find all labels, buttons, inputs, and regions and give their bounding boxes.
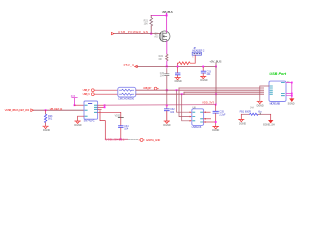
port P5V arrow [135, 65, 138, 67]
wire C6 top [215, 105, 217, 111]
wire port to U2 pin [75, 104, 85, 106]
transistor Q1 source stub [163, 40, 167, 41]
capacitor C4 [201, 71, 205, 73]
svg-text:VB_DET_R: VB_DET_R [50, 107, 63, 111]
wire drain vertical [166, 15, 168, 32]
IC U3 right pin arrows [204, 111, 206, 122]
wire decoupling branch vertical [166, 90, 168, 108]
wire FB1 right [258, 113, 271, 115]
wire cap C1 bottom to bus [166, 76, 168, 90]
svg-text:104: 104 [160, 75, 165, 78]
wire FB1 left [241, 113, 249, 115]
svg-text:DGND: DGND [163, 124, 170, 127]
IC U2 internal text [88, 102, 91, 104]
filter FL1 coil bottom [119, 93, 133, 95]
node junction ESD drop 1 [176, 89, 178, 91]
svg-text:+5V_BUS: +5V_BUS [209, 59, 221, 63]
capacitor C3 [175, 73, 180, 75]
svg-text:2.2uF: 2.2uF [219, 113, 226, 116]
capacitor C6 [213, 111, 218, 113]
connector J1 body [269, 81, 286, 101]
svg-text:P5V_U: P5V_U [124, 63, 135, 67]
pin tick FB1 [259, 113, 261, 114]
capacitor C2 [164, 109, 169, 111]
filter FL1 body [118, 87, 136, 97]
svg-text:3V3: 3V3 [71, 95, 76, 98]
svg-text:DGND: DGND [257, 104, 264, 107]
node junction shield low [291, 95, 293, 97]
ground arrow under C4 [201, 76, 206, 78]
resistor R1 [150, 18, 153, 26]
ferrite bead FB1 [250, 113, 259, 115]
svg-text:USB_DP: USB_DP [143, 86, 152, 90]
svg-text:USB_VBUS: USB_VBUS [162, 10, 173, 14]
wire mid rail long [105, 104, 216, 107]
power bar symbol at C5 [118, 116, 123, 118]
svg-text:0R: 0R [159, 58, 162, 61]
svg-text:DGND: DGND [200, 79, 207, 82]
wire FB1 right leg [270, 114, 272, 120]
node junction tall vertical on GND bus line [215, 93, 217, 95]
wire bus line A VBUS [179, 87, 264, 89]
node junction tie bottom [104, 106, 106, 108]
wire bottom rail [105, 138, 127, 140]
wire bus line B D+ [136, 89, 264, 91]
svg-text:EGND_SH: EGND_SH [263, 123, 275, 126]
connector J1 pin names [270, 86, 272, 94]
svg-text:AO: AO [154, 35, 158, 38]
capacitor C5 [119, 126, 124, 128]
svg-text:MICROUSB: MICROUSB [270, 102, 281, 105]
ground arrow under C2 [164, 121, 170, 123]
wire R1 bottom to gate line [150, 26, 152, 34]
node junction R3/5V rail [177, 66, 179, 68]
transistor Q1 gate bar [160, 33, 162, 40]
node junction port stem [74, 104, 76, 106]
wire FB1 left leg [240, 114, 242, 119]
wire U2 spare vertical [100, 111, 105, 140]
wire ESD drop 3 [182, 94, 190, 121]
node junction bottom rail [120, 138, 122, 140]
connector JP1 body [192, 52, 201, 55]
wire U2 right pin 2 [98, 106, 105, 108]
svg-text:USBLC6: USBLC6 [192, 126, 202, 129]
svg-text:DGND: DGND [175, 80, 182, 83]
wire J1 shield pins to vertical [286, 83, 292, 96]
svg-text:DGND: DGND [74, 124, 81, 127]
power arrow shield filled [289, 98, 294, 102]
svg-text:10K: 10K [144, 22, 149, 25]
wire R1 top stub [150, 15, 152, 17]
wire C5 top [120, 117, 122, 125]
svg-text:VDD_3V3: VDD_3V3 [202, 101, 214, 105]
wire 5V horizontal rail [137, 66, 216, 68]
svg-text:104: 104 [124, 128, 129, 131]
wire tall vertical from rail to mid rail [215, 67, 217, 105]
node junction C4 branch [202, 66, 204, 68]
wire C4 bottom [202, 73, 204, 76]
node junction mid rail end [215, 104, 217, 106]
resistor R3 [178, 62, 195, 65]
wire R3 left leg down [177, 63, 179, 66]
svg-text:USB_POWER_EN: USB_POWER_EN [118, 30, 148, 34]
svg-text:5K1: 5K1 [48, 118, 53, 121]
power arrow FB1 right filled [268, 120, 273, 123]
svg-text:104: 104 [170, 111, 175, 114]
svg-text:FB1 600R: FB1 600R [240, 110, 251, 113]
transistor Q1 channel bar [162, 33, 164, 41]
svg-text:USB Port: USB Port [269, 72, 286, 76]
node junction ESD drop 3 [181, 93, 183, 95]
wire C2 bottom [166, 111, 168, 121]
wire ESD drop 2 [179, 88, 190, 117]
IC U2 pin names right [94, 105, 96, 112]
wire cap C1 top stub [166, 69, 168, 74]
transistor Q1 bulk arrow [163, 36, 167, 38]
IC U2 pin names left [85, 105, 87, 116]
wire C4 top stub [202, 67, 204, 70]
power port 3V3 symbol [72, 98, 77, 106]
wire bus line C ID [184, 91, 264, 93]
wire bus line C corner [183, 92, 185, 94]
capacitor C1 inline [165, 74, 169, 76]
wire U2 right pin 3 stub [98, 108, 102, 110]
svg-text:USB_SHELL: USB_SHELL [105, 137, 125, 141]
port USB_PWR_EN arrow [111, 32, 114, 34]
svg-text:104: 104 [206, 73, 211, 76]
node junction shield top [291, 82, 293, 84]
ground arrow FB1 left [239, 119, 244, 121]
svg-text:SN74LVC: SN74LVC [84, 120, 95, 123]
transistor Q1 body circle [159, 31, 170, 42]
wire ESD drop 1 [177, 90, 190, 112]
port circle USB_DP [154, 87, 157, 90]
transistor Q1 drain stub [163, 32, 167, 33]
node junction on VBUS bus line [166, 89, 168, 91]
node junction R1/gate [150, 33, 152, 35]
wire U2 pin 4 to C5 [98, 112, 121, 117]
node junction rail corner [215, 66, 217, 68]
svg-text:DGND: DGND [239, 122, 246, 125]
wire U3 right pin 2 stub [204, 118, 211, 120]
IC U2 body [84, 101, 98, 119]
wire label tick [215, 63, 217, 67]
ground arrow J1 [257, 101, 263, 103]
connector JP1 pin stub [194, 55, 196, 63]
port VUSB arrow [31, 109, 34, 112]
ground arrow under U2 [75, 121, 81, 123]
wire VBUS tick [166, 13, 168, 15]
wire bus line D D- [136, 93, 264, 95]
wire U2 bottom-left pin to ground [78, 116, 84, 121]
wire bottom dashed stub [128, 138, 138, 140]
node junction R4 [45, 109, 47, 111]
svg-text:CMCHOKE90: CMCHOKE90 [118, 97, 135, 100]
wire C5 bottom [120, 128, 122, 139]
connector JP1 pins [194, 53, 200, 55]
svg-text:USB_N: USB_N [83, 92, 90, 96]
svg-text:J4A: J4A [250, 106, 254, 109]
ground arrow under R4 [43, 126, 49, 128]
ground arrow under C3 [175, 78, 180, 80]
filter FL1 coil top [119, 89, 133, 91]
IC U3 pin names left [193, 112, 195, 121]
svg-text:VUSB_VBUS_DET_3V3: VUSB_VBUS_DET_3V3 [5, 108, 30, 112]
port circle USB_N [91, 93, 94, 96]
wire R4 bottom [45, 123, 47, 126]
wire shield vertical [291, 83, 293, 99]
node junction on mid rail [166, 104, 168, 106]
IC U3 pin names right [201, 112, 203, 122]
node junction tie top [104, 104, 106, 106]
wire source vertical [166, 41, 168, 54]
node junction shield mid [291, 93, 293, 95]
resistor R2 inline [166, 54, 168, 61]
svg-text:DGND: DGND [43, 129, 50, 132]
node junction at VBUS [166, 14, 168, 16]
IC U3 left pin arrows [190, 111, 192, 121]
wire pin tie vertical [104, 105, 106, 107]
node junction 5V rail [166, 66, 168, 68]
svg-text:EARTH_GND: EARTH_GND [146, 138, 160, 142]
wire J1 GND pin [260, 86, 269, 101]
wire USB_P to choke [96, 89, 118, 91]
wire to C3 [177, 67, 179, 72]
svg-text:VD33: VD33 [115, 116, 121, 118]
wire C3 bottom [177, 75, 179, 77]
wire USB_N to choke [96, 93, 118, 95]
wire gate line [114, 33, 161, 35]
wire U3 right pin 3 to ground rail [204, 121, 216, 123]
node junction C6/U3 [215, 121, 217, 123]
svg-text:SGND: SGND [288, 103, 295, 106]
svg-text:DGND: DGND [212, 129, 219, 132]
wire C6 bottom [215, 114, 217, 127]
wire left net line [34, 109, 84, 111]
ground arrow under C6 [213, 126, 219, 129]
port circle USB_P [91, 89, 94, 92]
port bottom circle [140, 138, 143, 141]
wire U3 right pin 1 stub [204, 111, 211, 113]
wire U2 right pin 1 [98, 104, 105, 106]
wire R2 bottom [166, 61, 168, 67]
wire VBUS horizontal to R1 [151, 14, 166, 16]
wire R4 top stub [45, 110, 47, 114]
IC U3 ESD body [192, 109, 204, 126]
resistor R4 [44, 114, 46, 123]
